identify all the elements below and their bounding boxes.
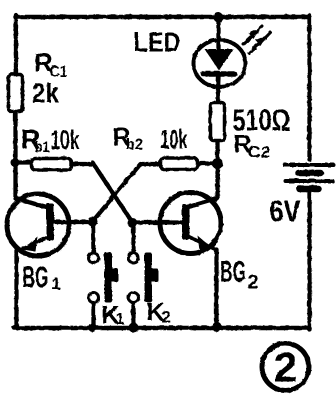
node dot K2 bottom rail <box>128 322 138 332</box>
LED light arrow 2 <box>249 32 270 53</box>
svg-text:1: 1 <box>51 274 60 293</box>
battery short thick plate 1 <box>298 169 320 176</box>
svg-text:1: 1 <box>115 311 124 328</box>
svg-text:C2: C2 <box>247 142 270 161</box>
node A dot (BG1 base) <box>87 216 97 226</box>
node dot left rail / Rb1 <box>10 158 19 167</box>
wire left rail lower (BG1 emitter to bottom) <box>14 250 18 327</box>
wire left rail middle <box>13 111 17 198</box>
wire Rb1 right lead diagonal to node B <box>71 162 132 222</box>
wire RC2 to node B2 <box>215 140 219 163</box>
wire right rail lower <box>307 190 311 329</box>
svg-text:2: 2 <box>273 343 297 390</box>
battery short thick plate 2 <box>299 185 318 192</box>
switch K2 bottom contact <box>128 292 138 302</box>
switch K2 plunger nub <box>150 268 158 282</box>
wire BG1 collector diagonal <box>16 198 50 208</box>
node B2 dot (RC2 / Rb2) <box>212 158 223 169</box>
svg-text:b2: b2 <box>126 136 143 153</box>
wire Rb2 right lead <box>197 161 215 165</box>
battery B1 plate long top <box>284 163 333 167</box>
node B dot (BG2 base) <box>127 218 137 228</box>
svg-text:LED: LED <box>133 26 180 57</box>
transistor BG2 emitter arrow <box>197 235 212 250</box>
wire node B down to K2 <box>131 223 135 252</box>
wire bottom rail <box>14 325 309 330</box>
node dot BG2 emitter bottom rail <box>212 322 222 332</box>
switch K1 top contact <box>88 253 98 263</box>
svg-text:BG: BG <box>220 255 246 288</box>
wire left rail upper <box>13 15 17 75</box>
battery plate long bottom <box>285 179 332 183</box>
wire Rb2 left lead diagonal to node A <box>92 164 160 222</box>
wire K2 to bottom rail <box>131 303 135 327</box>
svg-text:2: 2 <box>247 271 258 293</box>
LED triangle <box>204 49 233 71</box>
switch K1 plunger bar <box>104 252 112 302</box>
wire right rail upper <box>307 15 311 159</box>
figure number circle 2 <box>262 343 309 390</box>
svg-text:BG: BG <box>22 259 48 294</box>
wire LED anode drop <box>216 17 220 49</box>
switch K1 plunger nub <box>110 268 118 282</box>
node dot top rail / LED <box>213 12 223 22</box>
wire BG2 emitter diagonal <box>186 235 215 249</box>
wire LED cathode to RC2 <box>217 76 218 102</box>
svg-text:2k: 2k <box>32 77 59 108</box>
resistor Rb1 body <box>31 158 71 170</box>
svg-text:10k: 10k <box>160 124 188 154</box>
svg-text:b1: b1 <box>34 139 49 156</box>
wire top rail <box>15 14 309 19</box>
resistor RC1 body <box>8 74 22 111</box>
wire BG2 base to node B <box>132 220 182 224</box>
svg-text:2: 2 <box>161 307 170 326</box>
transistor BG1 base bar <box>46 203 54 240</box>
LED D1 circle <box>193 40 245 87</box>
svg-text:10k: 10k <box>50 125 80 155</box>
switch K1 bottom contact <box>88 292 98 302</box>
wire K1 to bottom rail <box>91 303 95 327</box>
transistor BG1 emitter arrow <box>22 236 37 251</box>
switch K2 top contact <box>128 253 138 263</box>
LED cathode bar <box>203 71 234 77</box>
transistor BG2 base bar <box>182 204 190 239</box>
switch K2 plunger bar <box>144 252 152 302</box>
wire node B2 to BG2 collector <box>186 163 217 207</box>
transistor Q2 BG2 circle <box>160 192 221 253</box>
wire node A down to K1 <box>90 221 95 252</box>
svg-text:6V: 6V <box>269 193 300 228</box>
wire Rb1 left lead <box>15 160 31 164</box>
resistor RC2 body <box>210 102 224 140</box>
wire BG1 emitter diagonal <box>19 235 51 250</box>
wire BG1 base to node A <box>53 219 92 223</box>
wire BG2 emitter to bottom rail <box>214 249 218 327</box>
node dot K1 bottom rail <box>88 323 97 332</box>
resistor Rb2 body <box>160 158 197 170</box>
LED light arrow 1 <box>243 26 262 44</box>
transistor Q1 BG1 circle <box>7 194 69 256</box>
